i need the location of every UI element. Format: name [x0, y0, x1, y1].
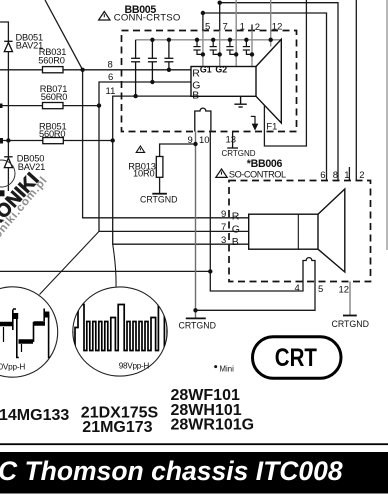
wire horizontal net at y=271	[0, 270, 210, 272]
wire G line from RB071	[0, 105, 99, 107]
wire R line (RB031 output to CRT socket)	[0, 69, 191, 71]
svg-text:B: B	[192, 90, 199, 102]
svg-text:CRTGND: CRTGND	[179, 321, 216, 331]
pin 5 wire BB005 to BB006 pin 6	[203, 13, 327, 181]
diode DB050	[4, 157, 12, 168]
CRT gun flare BB006	[318, 189, 345, 272]
left waveform trace	[0, 309, 51, 358]
svg-text:560R0: 560R0	[39, 129, 65, 139]
svg-text:7: 7	[223, 22, 228, 33]
capacitor C-left-1 (to B line)	[131, 40, 140, 96]
wire B path to BB006 pin 3	[113, 96, 249, 244]
capacitor C-left-2 (to G line)	[148, 40, 157, 82]
wire left input to DB051/DB050	[0, 22, 8, 191]
svg-text:CRT: CRT	[275, 343, 317, 371]
svg-text:11: 11	[106, 86, 116, 97]
svg-text:1: 1	[344, 170, 349, 181]
svg-text:98Vpp-H: 98Vpp-H	[119, 361, 150, 370]
svg-text:8: 8	[333, 170, 338, 181]
fuse F1 wire	[264, 0, 306, 146]
footer band	[0, 452, 388, 494]
svg-text:CRTGND: CRTGND	[140, 194, 177, 204]
wire right edge	[386, 0, 388, 250]
left edge cut marks	[0, 104, 5, 197]
svg-text:CONN-CRTSO: CONN-CRTSO	[114, 13, 181, 24]
pin 1 wire BB005	[235, 0, 237, 31]
svg-text:0Vpp-H: 0Vpp-H	[0, 362, 25, 371]
wire R vertical to BB006 pin 9	[83, 70, 249, 218]
resistor RB071	[43, 103, 64, 109]
svg-text:5: 5	[205, 22, 210, 33]
pin 10 wire to BB006 pin 4	[210, 132, 303, 292]
svg-text:7: 7	[221, 222, 226, 233]
svg-text:10R0: 10R0	[133, 169, 154, 179]
connector bump pins 9/10 BB005	[195, 108, 211, 131]
svg-text:5: 5	[318, 284, 323, 295]
svg-text:1: 1	[240, 22, 245, 33]
resistor RB013 branch	[160, 144, 196, 157]
svg-text:4: 4	[295, 283, 300, 294]
gun pin lines inside BB005	[203, 31, 252, 67]
svg-text:R: R	[232, 210, 240, 222]
wire bus inside BB005	[136, 39, 281, 41]
wire callout to right waveform circle	[113, 244, 116, 286]
wire B line from RB051	[0, 140, 113, 142]
svg-text:12: 12	[339, 285, 350, 296]
svg-text:10: 10	[199, 135, 210, 146]
svg-text:G: G	[232, 223, 240, 235]
svg-text:SO-CONTROL: SO-CONTROL	[229, 170, 286, 180]
node circle around DB050	[0, 160, 15, 187]
CRT gun body BB005	[191, 67, 256, 97]
pin 2 stub BB005	[251, 25, 253, 31]
svg-text:6: 6	[320, 170, 325, 181]
wire callout to left waveform circle	[40, 231, 100, 294]
pin 5 wire BB006 to CRTGND node	[196, 282, 316, 311]
svg-text:8: 8	[108, 59, 113, 70]
label * Mini	[214, 365, 217, 368]
svg-text:560R0: 560R0	[41, 92, 67, 102]
pin 2 wire BB006	[355, 0, 357, 181]
separator line	[0, 443, 388, 445]
svg-text:CRTGND: CRTGND	[332, 319, 369, 329]
svg-text:G2: G2	[215, 65, 227, 75]
ground below gun BB005	[234, 96, 246, 107]
capacitor C-pin7	[210, 40, 220, 55]
wire callout diagonal from upper circuit	[45, 0, 83, 70]
pin 9 wire down to CRTGND	[195, 132, 197, 319]
capacitor C-pin5	[193, 40, 203, 55]
right waveform circle	[73, 287, 167, 376]
pin 7 wire BB005 to BB006 pin 8	[220, 3, 338, 181]
BB005 connector box (dashed)	[122, 31, 297, 132]
warning triangle BB005	[99, 12, 110, 21]
svg-text:14MG133: 14MG133	[0, 407, 69, 424]
svg-text:*BB006: *BB006	[247, 158, 283, 170]
warning triangle BB006	[216, 169, 227, 177]
svg-text:BAV21: BAV21	[18, 162, 45, 172]
capacitor C-left-3 (to R line)	[164, 40, 173, 70]
ground CRTGND left	[186, 317, 206, 319]
svg-text:6: 6	[108, 72, 113, 83]
left waveform circle	[0, 287, 58, 377]
pin 12 wire BB005	[270, 0, 272, 47]
svg-text:21MG173: 21MG173	[82, 419, 152, 436]
resistor RB051	[43, 138, 64, 144]
wire G path to BB006 pin 7	[99, 82, 249, 231]
capacitor C-pin2	[243, 40, 252, 55]
right waveform trace	[73, 305, 169, 351]
svg-text:2: 2	[359, 170, 364, 181]
svg-text:12: 12	[272, 22, 283, 33]
capacitor C-pin1	[226, 40, 236, 55]
svg-text:F1: F1	[266, 121, 277, 131]
pin 12 wire BB006 to CRTGND	[349, 282, 351, 316]
BB006 box (dashed)	[229, 181, 371, 282]
svg-text:2: 2	[255, 22, 260, 33]
CRT gun flare BB005	[256, 39, 281, 123]
warning triangle RB013	[136, 146, 144, 152]
connector bump pins 4/5 BB006	[303, 258, 315, 282]
svg-text:C Thomson chassis ITC008: C Thomson chassis ITC008	[0, 456, 343, 486]
svg-text:G1: G1	[200, 65, 212, 75]
diode DB051	[4, 41, 12, 51]
resistor RB031	[43, 67, 64, 73]
CRT badge	[253, 337, 342, 379]
svg-text:560R0: 560R0	[38, 55, 64, 65]
pin 13 wire and ground	[227, 132, 238, 149]
gun divider BB006	[297, 214, 299, 249]
pin 1 stub BB006	[348, 167, 350, 181]
svg-text:28WR101G: 28WR101G	[171, 416, 255, 433]
svg-text:Mini: Mini	[220, 364, 235, 373]
svg-text:9: 9	[221, 209, 226, 220]
fuse F1 arrow symbol	[251, 116, 258, 129]
CRT gun body BB006	[249, 214, 318, 249]
svg-text:B: B	[232, 236, 239, 248]
svg-text:3: 3	[221, 235, 226, 246]
svg-text:13: 13	[226, 135, 237, 146]
